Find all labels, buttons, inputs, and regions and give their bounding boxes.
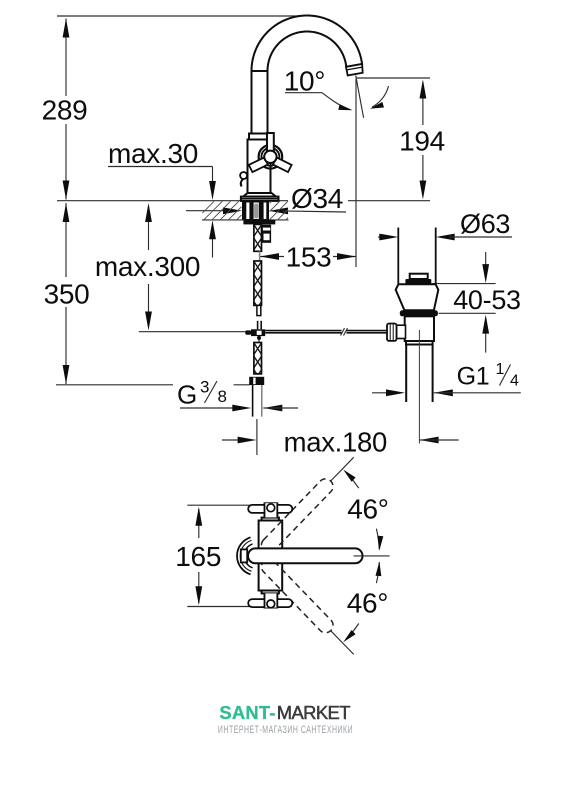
svg-text:4: 4 (510, 373, 519, 390)
svg-text:max.300: max.300 (95, 251, 200, 282)
svg-text:40-53: 40-53 (453, 285, 521, 315)
svg-text:8: 8 (218, 387, 227, 406)
svg-text:max.180: max.180 (284, 426, 387, 457)
svg-text:Ø63: Ø63 (460, 209, 510, 239)
svg-text:G: G (177, 379, 197, 409)
svg-text:289: 289 (42, 95, 88, 126)
svg-text:153: 153 (286, 242, 332, 273)
svg-text:350: 350 (44, 279, 90, 310)
svg-text:Ø34: Ø34 (291, 183, 343, 214)
svg-text:10°: 10° (284, 66, 325, 97)
svg-text:SANT-: SANT- (219, 702, 275, 723)
svg-text:ИНТЕРНЕТ-МАГАЗИН САНТЕХНИКИ: ИНТЕРНЕТ-МАГАЗИН САНТЕХНИКИ (218, 724, 353, 736)
svg-text:46°: 46° (347, 588, 388, 619)
svg-text:194: 194 (399, 126, 445, 157)
svg-text:max.30: max.30 (108, 138, 198, 169)
svg-text:3: 3 (200, 377, 209, 396)
svg-text:MARKET: MARKET (277, 702, 350, 723)
svg-text:165: 165 (175, 541, 221, 572)
svg-text:46°: 46° (347, 494, 388, 525)
svg-text:1: 1 (496, 361, 505, 378)
svg-text:G1: G1 (457, 363, 490, 391)
